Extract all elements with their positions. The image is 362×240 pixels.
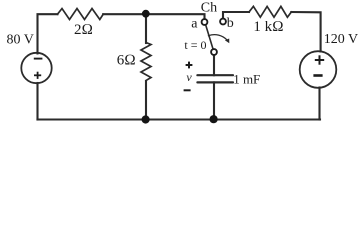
wire: switch pole down to capacitor top plate [213,55,215,75]
svg-text:1 kΩ: 1 kΩ [253,19,283,35]
wire: bottom rail [38,118,321,120]
svg-text:t = 0: t = 0 [184,38,206,52]
wire: top junction down to 6-ohm resistor [145,14,147,43]
resistor R1 2-ohm zigzag [58,9,104,20]
capacitor C1 bottom plate [197,81,233,83]
capacitor C1 top plate [197,74,233,76]
switch arrowhead [225,39,229,44]
svg-text:80 V: 80 V [7,33,34,48]
svg-text:a: a [191,16,198,31]
svg-text:120 V: 120 V [324,32,358,47]
switch blade from contact a to pole [206,25,214,50]
wire: capacitor bottom lead to bottom rail [213,82,215,119]
svg-text:b: b [227,16,234,31]
wire: 1k resistor to top-right corner down to 120V source [291,12,320,52]
V2 plus sign [315,55,324,64]
junction dot: top node [142,10,150,18]
switch contact a circle [202,19,208,25]
switch throw arc arrow [209,35,228,41]
wire: 6-ohm resistor bottom lead [145,81,147,120]
V1 plus sign [34,72,41,79]
switch contact b circle [220,19,226,25]
svg-text:2Ω: 2Ω [74,22,93,38]
svg-text:v: v [186,70,192,84]
wire: 2-ohm resistor to top junction [103,13,146,15]
capacitor plus polarity mark [186,62,193,69]
V2 minus sign [313,74,322,77]
wire: top junction to switch contact a [146,14,205,19]
junction dot: bottom left node [142,115,150,123]
source V1 80V circle [21,53,51,83]
switch pole circle [211,49,217,55]
wire: 80V source top lead and top-left corner to 2-ohm resistor [38,14,58,53]
resistor R3 1k-ohm zigzag [249,6,291,17]
resistor R2 6-ohm zigzag [141,43,151,81]
svg-text:6Ω: 6Ω [117,53,136,69]
capacitor minus polarity mark [184,89,191,91]
wire: 80V source bottom lead [36,83,38,120]
wire: switch contact b up to top wire toward 1k resistor [223,12,249,19]
junction dot: bottom capacitor node [210,115,218,123]
V1 minus sign [34,58,43,60]
svg-text:1 mF: 1 mF [233,72,260,87]
source V2 120V circle [300,51,337,88]
svg-text:Ch: Ch [201,1,217,16]
wire: 120V source bottom lead [318,88,320,120]
